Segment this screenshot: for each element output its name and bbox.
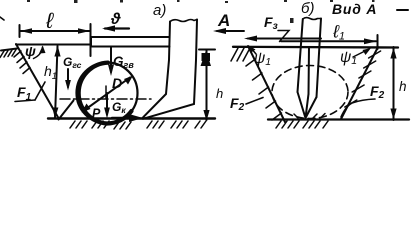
dimension l1 — [281, 35, 378, 49]
frame bar — [91, 37, 170, 47]
svg-text:ψ: ψ — [25, 43, 36, 59]
dimension h right b — [390, 47, 396, 120]
ground hatching a — [70, 121, 206, 129]
ground line a — [48, 117, 215, 119]
svg-text:h: h — [399, 79, 407, 94]
ground friction arrow — [112, 114, 143, 122]
svg-text:ℓ1: ℓ1 — [332, 22, 345, 43]
svg-text:а): а) — [153, 2, 166, 19]
svg-text:ψ1: ψ1 — [254, 50, 271, 68]
angle psi arc arrow — [34, 46, 46, 59]
ground hatch left end b — [231, 48, 250, 61]
svg-text:Gгс: Gгс — [63, 55, 82, 70]
surface hatching left — [0, 50, 16, 58]
top right dash — [397, 9, 408, 11]
soil surface left — [1, 49, 17, 51]
frame line horizontal — [16, 44, 91, 46]
furrow bottom line — [268, 118, 409, 120]
svg-text:ℓ: ℓ — [45, 8, 54, 33]
disc thick rim — [79, 63, 132, 124]
svg-text:D: D — [112, 75, 122, 91]
svg-text:Gк: Gк — [112, 100, 126, 115]
ground line b — [233, 46, 398, 49]
right furrow slope — [341, 47, 378, 119]
furrow wall slope — [16, 44, 59, 119]
center line dash-dot — [60, 98, 151, 100]
view arrow A — [213, 28, 244, 34]
svg-text:Gгв: Gгв — [113, 54, 134, 70]
scan specks top edge — [27, 0, 375, 23]
disc circle — [77, 63, 138, 124]
coulter shank a — [142, 20, 197, 119]
force Fz arrow — [244, 36, 321, 42]
diameter arrow D-P — [82, 76, 134, 113]
svg-text:б): б) — [301, 0, 314, 17]
svg-text:h: h — [216, 86, 223, 101]
dimension h right of a — [199, 50, 215, 122]
dimension h1 — [52, 46, 60, 119]
bottom hatching b — [276, 121, 328, 128]
slope hatching — [14, 51, 30, 74]
chisel body — [298, 18, 322, 118]
svg-text:F2: F2 — [370, 83, 385, 101]
svg-text:h1: h1 — [44, 63, 57, 81]
svg-text:А: А — [217, 11, 230, 30]
svg-text:ϑ: ϑ — [110, 11, 121, 28]
svg-text:ψ1: ψ1 — [340, 49, 357, 67]
svg-text:F2: F2 — [230, 95, 245, 113]
furrow bottom rise line to disc face — [59, 101, 74, 120]
force Ggs arrow — [65, 69, 71, 91]
edge speck top-left — [0, 17, 4, 20]
soil ticks near chisel tip — [294, 114, 325, 119]
force Ggv arrow — [108, 47, 114, 76]
center vertical tick — [105, 86, 107, 98]
force Gk arrow — [104, 93, 110, 119]
left slope hatching — [246, 59, 282, 120]
right slope hatching — [345, 51, 381, 107]
svg-text:Вид А: Вид А — [332, 1, 377, 17]
svg-text:Fз: Fз — [264, 14, 278, 32]
dashed soil circle — [272, 66, 348, 119]
left furrow slope — [248, 46, 285, 122]
dimension l — [20, 24, 91, 56]
velocity arrow — [102, 25, 129, 31]
